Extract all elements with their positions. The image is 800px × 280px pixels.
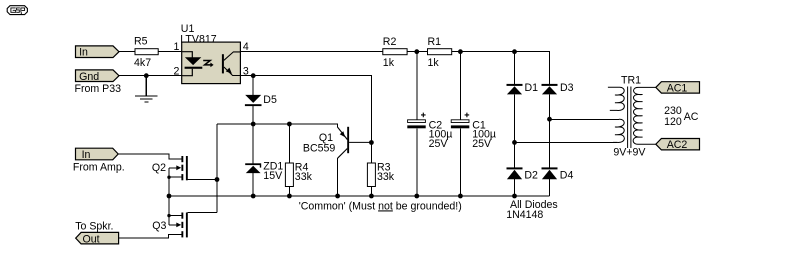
svg-text:R2: R2	[383, 36, 397, 48]
TR1 winding 9V upper (unused taps)	[608, 87, 624, 110]
diode D5	[245, 94, 277, 106]
transistor Q3 MOSFET	[152, 213, 187, 238]
svg-text:25V: 25V	[429, 138, 449, 150]
wire Out tag to Q3 drain	[119, 234, 182, 238]
wire gate rail horizontal to Q1 emitter	[217, 124, 337, 127]
junction common / Q1 collector	[335, 194, 340, 199]
capacitor C1	[451, 113, 496, 150]
node Out (to speaker) tag	[76, 232, 119, 245]
svg-text:Q2: Q2	[152, 162, 166, 174]
wire R3 bottom lead	[370, 187, 372, 197]
svg-text:BC559: BC559	[303, 142, 335, 154]
svg-text:33k: 33k	[377, 171, 395, 183]
wire R4 top lead	[288, 124, 290, 163]
wire D4 bottom lead	[549, 179, 551, 196]
wire Q3 source-body tie vertical	[168, 196, 170, 225]
junction common / C1	[458, 194, 463, 199]
resistor R2	[383, 36, 407, 69]
svg-text:D3: D3	[560, 82, 574, 94]
optocoupler U1 LTV817	[180, 23, 240, 83]
node AC2 tag	[656, 139, 700, 152]
resistor R4	[285, 161, 312, 186]
svg-text:Out: Out	[83, 233, 100, 245]
node Gnd tag	[76, 70, 120, 83]
junction common / R4	[287, 194, 292, 199]
diode D1	[507, 82, 539, 95]
wire R4 bottom lead	[288, 187, 290, 197]
junction common / ZD1	[251, 194, 256, 199]
wire C1 top lead	[459, 52, 461, 120]
wire Q3 source lead	[169, 215, 181, 217]
svg-text:1k: 1k	[428, 57, 440, 69]
resistor R1	[428, 36, 452, 69]
wire bridge tap to TR1 winding lower	[515, 141, 617, 143]
svg-text:D5: D5	[263, 94, 277, 106]
wire Q1 collector to common rail	[337, 158, 339, 196]
svg-text:In: In	[79, 47, 88, 59]
svg-text:15V: 15V	[263, 170, 283, 182]
transistor Q2 MOSFET	[152, 156, 188, 180]
svg-text:230: 230	[664, 105, 682, 117]
diode D2	[507, 167, 539, 181]
junction Q3 source tie	[167, 214, 170, 217]
svg-text:1k: 1k	[383, 57, 395, 69]
junction gate rail / D5-ZD1	[251, 122, 256, 127]
wire D5 anode lead	[252, 76, 254, 95]
junction gate rail / R4	[287, 122, 292, 127]
junction Q1 base / R3	[369, 140, 374, 145]
transformer TR1	[608, 74, 656, 158]
wire gate rail vertical to Q2 Q3 gates	[216, 124, 218, 213]
junction D3-D4 tap	[547, 117, 552, 122]
junction D1-D2 tap	[512, 140, 517, 145]
zener ZD1	[245, 160, 283, 182]
svg-text:4: 4	[243, 41, 249, 53]
wire Q2 gate lead	[188, 179, 217, 181]
svg-text:To Spkr.: To Spkr.	[75, 220, 113, 232]
node In (control input) tag	[76, 46, 120, 59]
svg-text:From Amp.: From Amp.	[73, 162, 125, 174]
svg-text:1N4148: 1N4148	[506, 209, 543, 221]
svg-text:1: 1	[174, 41, 180, 53]
svg-text:'Common' (Must not be grounded: 'Common' (Must not be grounded!)	[299, 200, 462, 212]
wire Q2 source-body tie vertical	[168, 168, 170, 196]
esp logo	[7, 6, 27, 15]
wire C2 bottom lead	[416, 128, 418, 196]
svg-text:9V+9V: 9V+9V	[613, 147, 646, 159]
junction Q2 gate	[215, 177, 220, 182]
wire common rail	[169, 195, 550, 197]
wire Q2 source lead	[169, 176, 181, 178]
wire Q3 gate lead	[188, 212, 217, 214]
svg-text:D1: D1	[525, 82, 539, 94]
wire R1 to bridge top	[452, 52, 550, 84]
diode D3	[542, 82, 574, 95]
wire R3 top lead	[370, 143, 372, 164]
svg-text:25V: 25V	[472, 138, 492, 150]
wire Gnd tag to U1 pin 2	[119, 75, 182, 77]
TR1 mains winding	[633, 87, 656, 144]
junction D1 top	[512, 49, 517, 54]
svg-text:TR1: TR1	[621, 74, 641, 86]
wire C2 top lead	[416, 52, 418, 120]
svg-text:D4: D4	[560, 169, 574, 181]
wire ZD1 cathode lead	[252, 124, 254, 163]
junction C1 top	[458, 49, 463, 54]
resistor R3	[367, 161, 394, 186]
svg-text:Q3: Q3	[152, 220, 166, 232]
wire Q2 body lead	[169, 167, 178, 169]
capacitor C2	[407, 113, 452, 150]
wire D1 top lead	[514, 52, 516, 84]
svg-text:2: 2	[174, 66, 180, 78]
svg-text:3: 3	[243, 66, 249, 78]
junction Q2 source tie	[167, 176, 170, 179]
wire ZD1 anode lead	[252, 173, 254, 196]
svg-text:AC2: AC2	[667, 139, 688, 151]
svg-text:120: 120	[664, 116, 682, 128]
svg-text:4k7: 4k7	[134, 57, 151, 69]
wire D1 to D2	[514, 94, 516, 167]
svg-text:R1: R1	[428, 36, 442, 48]
junction at Gnd tag / ground symbol	[144, 73, 149, 78]
wire D3 to D4	[549, 94, 551, 167]
svg-text:LTV817: LTV817	[180, 34, 216, 46]
node In (from amplifier) tag	[76, 148, 119, 161]
svg-text:R5: R5	[134, 35, 148, 47]
wire U1 pin 4 to R2	[240, 51, 382, 53]
svg-text:Gnd: Gnd	[79, 71, 99, 83]
svg-text:In: In	[82, 149, 91, 161]
TR1 winding 9V lower	[613, 119, 624, 142]
wire In tag to R5	[119, 51, 135, 53]
wire R2 to R1	[407, 51, 427, 53]
node AC1 tag	[656, 82, 700, 95]
junction C2 top	[414, 49, 419, 54]
junction U1 pin3 / D5	[251, 73, 256, 78]
ground	[135, 76, 158, 102]
wire bridge tap to TR1 winding upper	[550, 118, 619, 120]
wire In tag to Q2 drain	[118, 154, 181, 159]
junction common / R3	[369, 194, 374, 199]
diode D4	[542, 167, 574, 181]
svg-text:AC1: AC1	[667, 82, 688, 94]
wire R5 to U1 pin 1	[158, 51, 182, 53]
svg-text:33k: 33k	[295, 171, 313, 183]
svg-text:From P33: From P33	[75, 83, 122, 95]
junction common / D2	[512, 194, 517, 199]
svg-text:AC: AC	[684, 111, 699, 123]
junction common / C2	[414, 194, 419, 199]
wire C1 bottom lead	[459, 128, 461, 196]
wire Q3 body lead	[169, 224, 178, 226]
resistor R5	[134, 35, 158, 69]
transistor Q1 BC559	[303, 127, 372, 158]
wire D2 bottom lead	[514, 179, 516, 196]
svg-text:D2: D2	[524, 169, 538, 181]
wire D5 cathode to gate rail	[252, 106, 254, 124]
wire U1 pin 3 to Q1 base node	[240, 76, 371, 143]
junction common rail left end	[167, 194, 172, 199]
